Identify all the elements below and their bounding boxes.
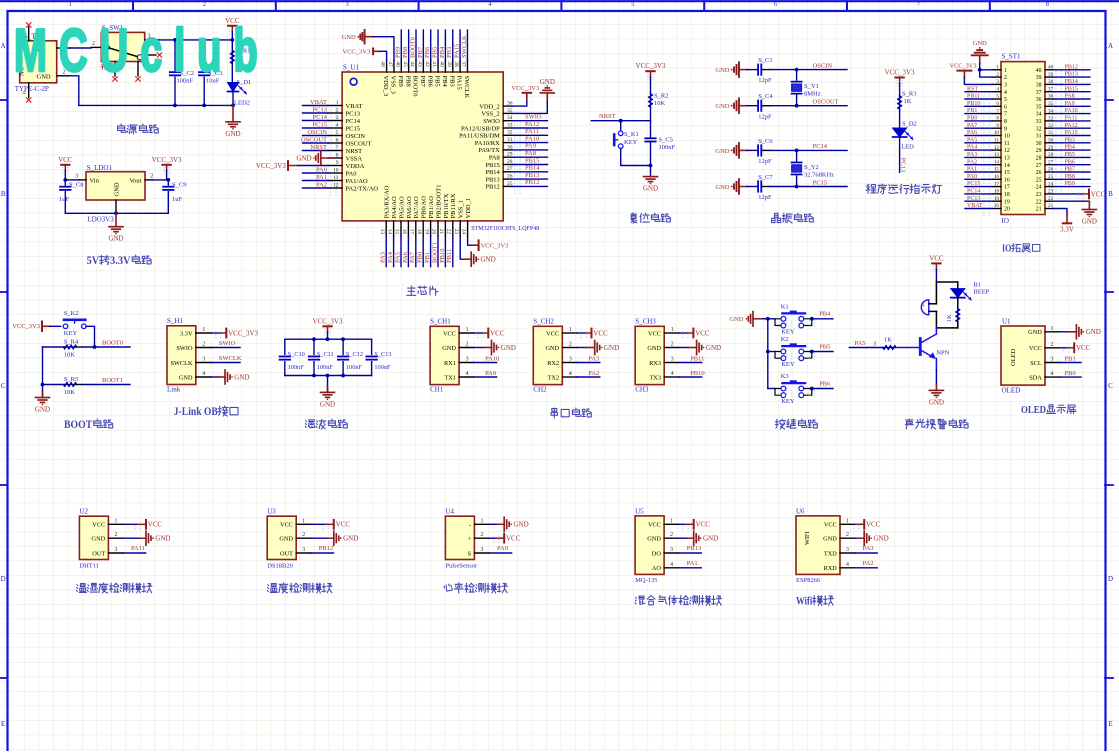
svg-text:12: 12	[994, 145, 1000, 151]
buzzer B1	[935, 282, 937, 304]
svg-text:CH2: CH2	[533, 386, 547, 394]
svg-text:BOOT0: BOOT0	[412, 76, 419, 97]
svg-text:PC14: PC14	[813, 143, 828, 150]
U1 top pin 46 PB9	[400, 60, 402, 72]
svg-text:PA5: PA5	[394, 252, 401, 263]
U1 right pin 35 VSS_2	[503, 112, 512, 114]
U1 right pin 31 PA10/RX	[503, 142, 512, 144]
svg-text:PB12: PB12	[525, 179, 539, 186]
net label PB5	[812, 351, 833, 353]
svg-text:12pF: 12pF	[758, 113, 772, 120]
svg-text:PB11/RX: PB11/RX	[450, 193, 457, 218]
svg-text:PA12: PA12	[525, 121, 539, 128]
svg-text:PB3: PB3	[446, 47, 453, 58]
ST1 left pin 18	[992, 193, 1001, 195]
svg-text:LED: LED	[901, 144, 914, 151]
svg-text:2: 2	[150, 173, 153, 179]
svg-text:PA2/TX/AO: PA2/TX/AO	[346, 185, 379, 192]
svg-text:PB5: PB5	[431, 47, 438, 58]
ST1 left pin 5	[992, 98, 1001, 100]
svg-text:34: 34	[1036, 112, 1042, 118]
svg-text:1: 1	[671, 327, 674, 333]
ST1 right pin 24	[1045, 186, 1053, 188]
U1 right pin 36 VDD_2	[503, 105, 512, 107]
svg-text:PC15: PC15	[346, 125, 360, 132]
power port VCC alarm	[932, 262, 940, 264]
U1 bottom pin 24 VDD_1	[467, 221, 469, 237]
svg-text:7: 7	[917, 1, 920, 8]
svg-text:VDD_2: VDD_2	[479, 103, 500, 110]
svg-text:PC13: PC13	[346, 110, 360, 117]
svg-text:BOOT0: BOOT0	[102, 340, 123, 347]
svg-text:S_C4: S_C4	[758, 93, 773, 100]
svg-text:PA11/USB/DM: PA11/USB/DM	[459, 133, 500, 140]
ST1 right pin 21	[1045, 208, 1053, 210]
ST1 left pin 11	[992, 142, 1001, 144]
ground GND U2	[123, 537, 139, 539]
U1 left pin 3 PC14	[328, 120, 342, 122]
svg-text:GND: GND	[279, 536, 293, 543]
svg-text:Link: Link	[167, 386, 181, 394]
svg-text:4: 4	[1004, 90, 1007, 96]
svg-text:S_C12: S_C12	[346, 351, 363, 358]
svg-text:19: 19	[423, 229, 429, 235]
ST1 left pin 1	[992, 69, 1001, 71]
svg-text:SWCLK: SWCLK	[463, 76, 470, 99]
svg-text:15: 15	[394, 229, 400, 235]
svg-text:TYPE-C-2P: TYPE-C-2P	[15, 85, 49, 93]
U1 bottom pin 13 PA3/RX/AO	[385, 221, 387, 237]
ground GND alarm	[935, 370, 937, 384]
svg-text:PB13: PB13	[1065, 72, 1078, 78]
svg-text:STM32F103C8T6_LQFP48: STM32F103C8T6_LQFP48	[471, 226, 539, 232]
svg-text:37: 37	[1036, 90, 1042, 96]
svg-text:PC13: PC13	[900, 158, 907, 172]
svg-text:PB12: PB12	[485, 184, 499, 191]
ST1 left pin 10	[992, 135, 1001, 137]
U1 top pin 37 SWCLK	[466, 60, 468, 72]
ST1 left pin 3	[992, 83, 1001, 85]
ground GND CH3	[679, 347, 689, 349]
svg-text:GND: GND	[706, 344, 721, 352]
svg-text:OSCOUT: OSCOUT	[813, 99, 839, 106]
svg-text:PA8: PA8	[1065, 94, 1075, 100]
svg-text:38: 38	[453, 61, 459, 67]
ST1 left pin 12	[992, 149, 1001, 151]
svg-text:10: 10	[333, 167, 339, 173]
svg-text:GND: GND	[647, 536, 661, 543]
capacitor C8 1uF	[64, 180, 66, 185]
title reset circuit	[631, 213, 637, 223]
svg-text:5: 5	[336, 130, 339, 136]
U1 top pin 43 PB7	[422, 60, 424, 72]
LDO GND pin	[115, 200, 117, 213]
svg-text:PA10: PA10	[525, 135, 539, 142]
svg-text:VSSA: VSSA	[346, 155, 363, 162]
svg-text:24: 24	[460, 229, 466, 235]
svg-text:GND: GND	[715, 184, 729, 191]
svg-text:PA5/AO: PA5/AO	[398, 196, 405, 218]
svg-text:VSS_3: VSS_3	[390, 76, 397, 94]
svg-text:VCC: VCC	[92, 522, 105, 529]
wire NRST	[591, 120, 650, 122]
svg-text:3: 3	[873, 342, 876, 348]
svg-text:PC13: PC13	[313, 106, 327, 113]
power port VCC U2	[123, 523, 138, 525]
svg-text:14: 14	[1004, 163, 1010, 169]
ST1 left pin 9	[992, 127, 1001, 129]
svg-text:U5: U5	[635, 508, 644, 516]
svg-text:DHT11: DHT11	[79, 563, 99, 570]
svg-text:GND: GND	[481, 256, 496, 264]
svg-text:VCC: VCC	[1029, 345, 1042, 352]
U1 right pin 25 PB12	[503, 185, 512, 187]
frame row ticks and letters	[1105, 99, 1113, 101]
svg-text:12: 12	[333, 182, 339, 188]
svg-text:PA12: PA12	[1065, 123, 1078, 129]
svg-text:PC15: PC15	[967, 181, 980, 187]
svg-text:1: 1	[69, 1, 72, 8]
svg-text:S_C5: S_C5	[659, 137, 673, 144]
svg-text:6: 6	[774, 1, 777, 8]
svg-text:2: 2	[466, 342, 469, 348]
svg-text:16: 16	[1004, 177, 1010, 183]
svg-text:PB13: PB13	[485, 176, 499, 183]
power port VCC U6	[855, 523, 856, 525]
svg-text:11: 11	[994, 138, 999, 144]
U1 bottom pin 15 PA5/AO	[400, 221, 402, 237]
svg-text:PB7: PB7	[419, 76, 426, 88]
svg-text:40: 40	[1036, 68, 1042, 74]
svg-text:4: 4	[336, 122, 339, 128]
U1 right pin 28 PB15	[503, 164, 512, 166]
svg-text:BOOT1: BOOT1	[102, 377, 123, 384]
svg-text:13: 13	[379, 229, 385, 235]
svg-text:20: 20	[1004, 207, 1010, 213]
svg-text:S_Y1: S_Y1	[804, 83, 819, 90]
svg-text:VDDA: VDDA	[346, 163, 365, 170]
U1 left pin 12 PA2/TX/AO	[328, 187, 342, 189]
svg-text:OLED: OLED	[1010, 348, 1017, 366]
svg-text:PA3: PA3	[967, 152, 977, 158]
svg-text:GND: GND	[545, 345, 559, 352]
svg-text:1: 1	[1051, 326, 1054, 332]
svg-text:PB4: PB4	[441, 76, 448, 88]
svg-text:PA0: PA0	[316, 166, 327, 173]
svg-text:S_C13: S_C13	[374, 351, 391, 358]
push button K1 reset key	[620, 121, 622, 131]
wire to PC13	[899, 138, 901, 173]
svg-text:VCC_3V3: VCC_3V3	[511, 85, 539, 92]
svg-text:PB1: PB1	[1065, 355, 1076, 362]
svg-text:19: 19	[994, 196, 1000, 202]
svg-text:10: 10	[994, 130, 1000, 136]
U1 bottom pin 22 PB11/RX	[452, 221, 454, 237]
svg-text:OSCIN: OSCIN	[346, 133, 366, 140]
power port VCC_3V3 reset	[646, 70, 654, 72]
junction C3	[202, 38, 206, 42]
ST1 right pin 26	[1045, 171, 1053, 173]
svg-text:S_CH3: S_CH3	[635, 318, 656, 326]
svg-text:PA2: PA2	[316, 181, 327, 188]
net label OSCOUT	[797, 105, 847, 107]
U1 left pin 2 PC13	[328, 112, 342, 114]
svg-text:PC14: PC14	[313, 114, 328, 121]
ground GND U4	[489, 523, 498, 525]
svg-text:RX2: RX2	[547, 360, 559, 367]
svg-text:3: 3	[670, 547, 673, 553]
svg-text:PB8: PB8	[404, 76, 411, 87]
svg-text:26: 26	[1036, 170, 1042, 176]
svg-text:VCC: VCC	[148, 521, 163, 529]
svg-text:PB4: PB4	[439, 46, 446, 58]
svg-text:10: 10	[1004, 134, 1010, 140]
svg-text:VCC_3V3: VCC_3V3	[313, 317, 343, 325]
svg-text:S_C8: S_C8	[69, 181, 83, 188]
ST1 right pin 37	[1045, 91, 1053, 93]
svg-text:VBAT: VBAT	[967, 203, 983, 209]
wire VCC to LDO Vin	[65, 179, 79, 181]
svg-text:TX2: TX2	[548, 374, 560, 381]
svg-text:17: 17	[409, 229, 415, 235]
ground GND CH2	[577, 347, 587, 349]
svg-text:27: 27	[1036, 163, 1042, 169]
capacitor C6 12pF	[757, 145, 759, 155]
U1 pin 36 VDD_2 to VCC_3V3	[512, 100, 527, 107]
svg-text:VCC_3V3: VCC_3V3	[228, 329, 258, 337]
svg-text:3: 3	[346, 1, 349, 8]
svg-text:U2: U2	[79, 508, 88, 516]
svg-text:PB6: PB6	[1065, 159, 1075, 165]
U1 bottom pin 21 PB10/TX	[444, 221, 446, 237]
power port VCC_3V3 indicator	[895, 77, 903, 79]
svg-text:21: 21	[438, 229, 444, 235]
svg-text:OLED: OLED	[1002, 387, 1021, 395]
capacitor C12 100nF	[342, 339, 344, 354]
svg-text:1: 1	[1004, 68, 1007, 74]
svg-text:VCC: VCC	[280, 522, 293, 529]
ST1 right pin 34	[1045, 113, 1053, 115]
svg-text:PB10: PB10	[967, 101, 980, 107]
svg-text:3.3V: 3.3V	[110, 255, 131, 267]
svg-text:16: 16	[401, 229, 407, 235]
svg-text:GND: GND	[715, 148, 729, 155]
LDO pin 2 to VCC_3V3	[145, 179, 153, 181]
crystal Y1 8MHz	[796, 70, 798, 81]
svg-text:14: 14	[994, 159, 1000, 165]
svg-text:PB15: PB15	[485, 162, 499, 169]
net label PA1	[679, 567, 702, 569]
power port VCC U4	[489, 537, 496, 539]
net label PB4	[812, 318, 833, 320]
svg-text:5: 5	[1004, 97, 1007, 103]
svg-text:7: 7	[1004, 112, 1007, 118]
net label PA3	[577, 362, 600, 364]
svg-text:5: 5	[631, 1, 634, 8]
svg-text:E: E	[1108, 720, 1112, 728]
svg-text:8MHz: 8MHz	[804, 91, 821, 98]
power port VCC CH3	[679, 332, 688, 334]
svg-text:PA9: PA9	[1065, 101, 1075, 107]
svg-text:19: 19	[1004, 199, 1010, 205]
svg-text:GND: GND	[320, 400, 335, 408]
svg-text:PA0: PA0	[497, 545, 508, 552]
svg-text:IO: IO	[1002, 244, 1011, 255]
svg-text:PA0: PA0	[967, 174, 977, 180]
svg-text:GND: GND	[296, 154, 311, 162]
ST1 right pin 30	[1045, 142, 1053, 144]
filter top rail	[285, 338, 372, 340]
svg-text:GND: GND	[540, 78, 555, 86]
transistor Q1 NPN	[919, 339, 922, 355]
ST1 left pin 20	[992, 208, 1001, 210]
title key circuit	[775, 419, 785, 429]
svg-text:PA15: PA15	[1065, 130, 1078, 136]
svg-text:1K: 1K	[884, 337, 892, 344]
capacitor C10 100nF	[284, 339, 286, 354]
svg-text:3: 3	[569, 357, 572, 363]
svg-text:1: 1	[480, 518, 483, 524]
svg-text:VCC: VCC	[546, 330, 559, 337]
ST1 left pin 7	[992, 113, 1001, 115]
svg-text:PA8: PA8	[489, 155, 500, 162]
svg-text:4: 4	[670, 562, 673, 568]
title DS18B20 module	[267, 584, 277, 593]
svg-text:-: -	[469, 522, 471, 529]
capacitor C11 100nF	[313, 339, 315, 354]
svg-text:37: 37	[461, 61, 467, 67]
svg-text:OLED: OLED	[1021, 405, 1046, 416]
SW1 unused pin with no-ERC	[145, 54, 156, 56]
svg-text:23: 23	[1036, 192, 1042, 198]
net label PB0	[1060, 376, 1082, 378]
svg-text:PB12: PB12	[319, 545, 333, 552]
U1 bottom pin 17 PA7/AO	[415, 221, 417, 237]
svg-text:12pF: 12pF	[758, 158, 772, 165]
svg-text:PB4: PB4	[1065, 145, 1075, 151]
svg-text:GND: GND	[343, 535, 358, 543]
svg-text:PB2/BOOT1: PB2/BOOT1	[435, 185, 442, 219]
U1 right pin 32 PA11/USB/DM	[503, 134, 512, 136]
svg-text:BOOT1: BOOT1	[431, 242, 438, 263]
svg-text:PC14: PC14	[346, 118, 361, 125]
svg-text:PB6: PB6	[819, 380, 831, 387]
frame column ticks	[132, 1, 134, 11]
capacitor C7 12pF	[757, 181, 759, 191]
svg-text:S_U1: S_U1	[343, 64, 359, 72]
svg-text:VCC: VCC	[824, 522, 837, 529]
svg-text:PA1/AO: PA1/AO	[346, 178, 368, 185]
ST1 left pin 13	[992, 156, 1001, 158]
svg-text:GND: GND	[929, 398, 944, 406]
ground GND jlink	[211, 376, 218, 378]
svg-text:13: 13	[1004, 156, 1010, 162]
svg-text:0: 0	[22, 91, 28, 94]
svg-text:PB3: PB3	[448, 76, 455, 87]
svg-text:PB10: PB10	[439, 249, 446, 263]
svg-text:3: 3	[75, 173, 78, 179]
svg-text:4: 4	[846, 562, 849, 568]
svg-text:OSCOUT: OSCOUT	[346, 140, 372, 147]
U1 pin 24 VDD_1 to VCC_3V3	[468, 236, 474, 245]
net label BOOT1	[83, 384, 131, 386]
capacitor C13 100nF	[371, 339, 373, 354]
svg-text:9: 9	[336, 160, 339, 166]
svg-text:DS18B20: DS18B20	[267, 563, 293, 570]
net label SWCLK	[211, 362, 240, 364]
svg-text:3: 3	[466, 357, 469, 363]
svg-text:1: 1	[670, 518, 673, 524]
svg-text:22: 22	[1036, 199, 1042, 205]
svg-text:PB15: PB15	[525, 157, 539, 164]
svg-text:PB11: PB11	[967, 94, 980, 100]
ST1 right pin 23	[1045, 193, 1053, 195]
net label PB12	[311, 552, 334, 554]
ST1 right pin 35	[1045, 105, 1053, 107]
svg-text:VCC: VCC	[1076, 344, 1091, 352]
svg-text:100nF: 100nF	[317, 364, 334, 371]
svg-text:S_H1: S_H1	[167, 317, 183, 325]
svg-text:VCC: VCC	[695, 329, 710, 337]
svg-text:Vin: Vin	[90, 178, 100, 185]
svg-text:1uF: 1uF	[59, 196, 70, 203]
svg-text:8: 8	[996, 116, 999, 122]
net label PB13	[679, 552, 702, 554]
svg-text:AO: AO	[652, 565, 662, 572]
svg-text:VCC: VCC	[648, 330, 661, 337]
power port VCC_3V3 filter	[323, 325, 331, 327]
power port VCC at ST1 pin 23	[1053, 193, 1083, 195]
svg-text:VCC: VCC	[593, 329, 608, 337]
svg-text:3: 3	[114, 547, 117, 553]
svg-text:PB0/AO: PB0/AO	[421, 196, 428, 219]
svg-text:GND: GND	[703, 535, 718, 543]
svg-text:3: 3	[996, 79, 999, 85]
svg-text:OUT: OUT	[92, 550, 105, 557]
svg-text:VDD_1: VDD_1	[465, 198, 472, 219]
svg-text:PA3: PA3	[863, 545, 874, 552]
svg-text:32: 32	[1036, 126, 1042, 132]
svg-text:GND: GND	[874, 535, 889, 543]
svg-text:35: 35	[1036, 104, 1042, 110]
svg-text:12: 12	[1004, 148, 1010, 154]
svg-text:PA7: PA7	[409, 251, 416, 263]
svg-text:RXD: RXD	[824, 565, 838, 572]
svg-text:10K: 10K	[64, 352, 76, 359]
svg-text:PA3/RX/AO: PA3/RX/AO	[384, 185, 391, 218]
svg-text:25: 25	[1036, 177, 1042, 183]
svg-text:2: 2	[1051, 342, 1054, 348]
svg-text:PA6: PA6	[402, 251, 409, 263]
svg-text:VCC: VCC	[648, 522, 661, 529]
power port VCC for LDO	[61, 164, 69, 166]
capacitor C4 12pF	[757, 101, 759, 111]
svg-text:RST: RST	[967, 86, 978, 92]
crystal Y2 32.768KHz	[796, 150, 798, 161]
svg-text:VCC_3V3: VCC_3V3	[950, 62, 977, 69]
svg-text:KEY: KEY	[64, 330, 78, 337]
ground GND filter	[327, 376, 329, 393]
svg-text:U6: U6	[796, 508, 805, 516]
svg-text:S_R2: S_R2	[654, 93, 668, 100]
resistor R1 1K	[231, 40, 233, 48]
svg-text:3.3V: 3.3V	[1060, 225, 1074, 233]
ST1 left pin 15	[992, 171, 1001, 173]
ST1 left pin 17	[992, 186, 1001, 188]
svg-text:VCC: VCC	[336, 521, 351, 529]
U1 top pin 44 BOOT0	[415, 60, 417, 72]
svg-text:OSCOUT: OSCOUT	[301, 136, 327, 143]
